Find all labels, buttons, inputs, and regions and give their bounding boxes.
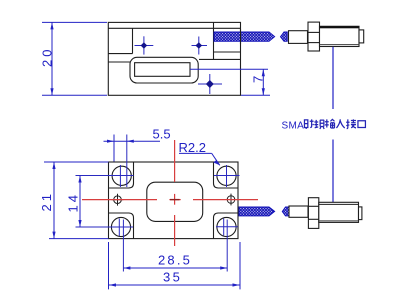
svg-text:14: 14 [66,192,81,212]
crosshairs bottom-left hole [76,219,134,272]
lobe top-right [214,162,239,188]
screw hole top-right [217,166,236,185]
SMA connector bottom: hex nut [308,198,318,229]
dimension 28.5 [123,267,227,269]
body outline front view [108,22,240,95]
centerline vertical red [174,140,176,246]
glyph pin [314,120,324,129]
leader line upper segment [332,47,334,109]
left ledge line [108,61,130,63]
right notch bottom line [214,51,241,53]
body outline plan view [109,162,239,239]
top step line [108,27,240,29]
screw hole bottom-right [217,217,236,236]
lobe bottom-left [109,213,134,239]
cable stub top connector [281,32,288,41]
svg-text:28.5: 28.5 [158,253,192,268]
side screw left [112,194,124,206]
SMA connector top: barrel [289,31,308,44]
svg-text:SMA: SMA [282,120,305,131]
glyph she [304,119,313,129]
lobe top-left [109,162,134,188]
central pocket rounded rect [147,182,203,221]
screw hole bottom-left [111,217,130,236]
dimension 5.5 [104,135,161,162]
center mark dark overlap [170,199,180,201]
SMA connector bottom: body [319,202,359,222]
glyph kou [358,121,365,128]
svg-text:7: 7 [251,76,266,83]
SMA connector bottom: barrel [289,206,308,217]
dimension 20 [42,22,107,95]
cable hatch band top view [214,32,275,41]
leader line lower segment [332,140,334,203]
screw mark B front view [192,37,208,55]
SMA connector bottom: end cap [359,207,362,220]
left box vertical line [132,28,134,53]
crosshairs top-left hole [76,135,134,188]
glyph shu [325,119,335,128]
glyph jie [346,119,356,128]
svg-text:21: 21 [39,191,54,211]
screw mark A front view [135,36,154,54]
screw mark C front view [198,74,222,94]
crosshairs bottom-right hole [216,219,238,272]
SMA connector top: hex nut [308,22,320,51]
screw hole top-left [112,166,131,185]
right notch vertical [213,22,215,59]
SMA connector top: body [320,26,360,46]
slot rounded rectangle [130,57,198,83]
svg-text:5.5: 5.5 [153,126,171,141]
slot inner rectangle [135,63,190,77]
dimension 21 [44,162,109,239]
dimension 14 [79,176,81,228]
SMA connector top: end cap [359,30,364,43]
dimension 7 [190,69,270,95]
crosshairs top-right hole [214,165,240,187]
right step line [199,58,241,60]
svg-text:20: 20 [39,47,54,67]
side screw right [225,194,237,206]
svg-text:R2.2: R2.2 [179,140,206,155]
cable hatch band plan view [239,207,275,216]
dimension 35 [109,242,241,289]
svg-text:35: 35 [163,269,182,284]
left box horizontal line [108,53,132,55]
glyph ru [336,119,344,128]
centerline horizontal red [82,199,258,201]
label SMA RF input [282,119,366,131]
lobe bottom-right [214,213,239,239]
cable stub bottom connector [282,207,289,216]
